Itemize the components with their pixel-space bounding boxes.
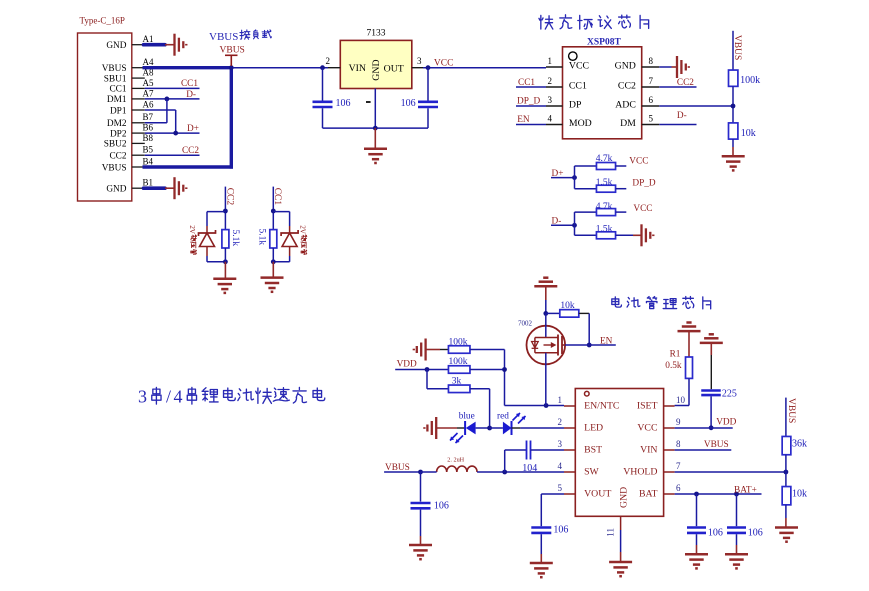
svg-text:VBUS: VBUS (102, 64, 127, 74)
svg-text:2V: 2V (298, 225, 306, 235)
svg-text:CC1: CC1 (109, 85, 126, 95)
svg-text:red: red (497, 411, 509, 421)
svg-text:4.7k: 4.7k (596, 202, 613, 212)
svg-text:4.7k: 4.7k (596, 154, 613, 164)
svg-text:LED: LED (584, 423, 603, 434)
svg-text:ADC: ADC (615, 100, 636, 111)
svg-text:5: 5 (558, 483, 563, 493)
svg-text:9: 9 (676, 417, 681, 427)
svg-text:B8: B8 (143, 133, 154, 143)
svg-text:B5: B5 (143, 145, 154, 155)
svg-text:DP1: DP1 (110, 106, 127, 116)
svg-text:6: 6 (649, 95, 654, 105)
svg-text:SBU1: SBU1 (104, 74, 127, 84)
svg-text:100k: 100k (449, 357, 468, 367)
svg-text:D-: D- (677, 111, 687, 121)
svg-text:CC2: CC2 (618, 81, 636, 92)
svg-text:106: 106 (336, 98, 351, 109)
svg-text:VCC: VCC (434, 59, 454, 69)
svg-text:OUT: OUT (384, 64, 404, 75)
svg-text:7133: 7133 (367, 29, 386, 39)
svg-text:B1: B1 (143, 178, 154, 188)
svg-text:1.5k: 1.5k (596, 224, 613, 234)
svg-text:VBUS: VBUS (102, 163, 127, 173)
svg-text:3k: 3k (452, 377, 462, 387)
svg-text:EN: EN (600, 337, 613, 347)
svg-text:VCC: VCC (633, 204, 652, 214)
svg-text:A5: A5 (143, 78, 154, 88)
svg-text:A7: A7 (143, 88, 154, 98)
svg-text:7002: 7002 (518, 319, 533, 327)
svg-text:VCC: VCC (637, 423, 657, 434)
svg-text:4: 4 (174, 386, 183, 406)
svg-text:1.5k: 1.5k (596, 178, 613, 188)
svg-text:A1: A1 (143, 34, 154, 44)
svg-text:DM1: DM1 (107, 95, 127, 105)
svg-text:SBU2: SBU2 (104, 140, 127, 150)
svg-text:2: 2 (548, 76, 553, 86)
svg-text:GND: GND (106, 185, 126, 195)
svg-text:CC1: CC1 (518, 78, 535, 88)
svg-text:10: 10 (676, 395, 686, 405)
svg-text:blue: blue (459, 411, 475, 421)
svg-text:VBUS: VBUS (786, 398, 796, 423)
svg-text:VIN: VIN (640, 445, 657, 456)
svg-text:GND: GND (371, 59, 382, 80)
svg-text:2: 2 (326, 56, 331, 66)
svg-text:R1: R1 (670, 349, 681, 359)
svg-text:VIN: VIN (349, 63, 366, 74)
svg-text:3: 3 (417, 56, 422, 66)
svg-text:DP_D: DP_D (632, 179, 656, 189)
svg-text:/: / (166, 386, 171, 406)
svg-text:100k: 100k (740, 75, 760, 86)
svg-text:VCC: VCC (629, 156, 648, 166)
svg-text:CC2: CC2 (109, 152, 126, 162)
svg-text:4: 4 (548, 113, 553, 123)
svg-text:CC1: CC1 (569, 81, 587, 92)
svg-text:106: 106 (748, 528, 763, 539)
svg-text:106: 106 (434, 501, 449, 512)
svg-text:VDD: VDD (397, 359, 417, 369)
svg-text:DP: DP (569, 100, 582, 111)
svg-text:106: 106 (708, 528, 723, 539)
svg-text:GND: GND (106, 41, 126, 51)
svg-text:1: 1 (558, 395, 563, 405)
svg-text:B6: B6 (143, 123, 154, 133)
svg-text:DP2: DP2 (110, 129, 127, 139)
svg-text:D+: D+ (187, 124, 199, 134)
svg-text:SW: SW (584, 467, 599, 478)
svg-text:ISET: ISET (637, 401, 658, 412)
svg-text:5.1k: 5.1k (230, 230, 240, 247)
svg-text:1: 1 (548, 56, 553, 66)
svg-text:VBUS: VBUS (220, 46, 245, 56)
svg-text:7: 7 (649, 76, 654, 86)
svg-text:BST: BST (584, 445, 602, 456)
svg-text:5.1k: 5.1k (256, 229, 266, 246)
svg-text:6: 6 (676, 483, 681, 493)
svg-text:D-: D- (186, 90, 196, 100)
svg-text:DM2: DM2 (107, 119, 127, 129)
svg-text:Type-C_16P: Type-C_16P (80, 16, 125, 26)
svg-text:3: 3 (138, 386, 147, 406)
svg-text:VCC: VCC (569, 61, 589, 72)
svg-text:VDD: VDD (716, 418, 736, 428)
svg-text:2V: 2V (188, 225, 196, 235)
svg-text:3: 3 (548, 95, 553, 105)
svg-text:10k: 10k (792, 489, 807, 500)
svg-text:DP_D: DP_D (517, 97, 541, 107)
svg-text:GND: GND (615, 61, 636, 72)
svg-text:MOD: MOD (569, 118, 592, 129)
svg-text:VOUT: VOUT (584, 489, 611, 500)
svg-text:A6: A6 (143, 99, 154, 109)
svg-text:VBUS: VBUS (704, 440, 729, 450)
svg-text:B7: B7 (143, 112, 154, 122)
svg-text:2: 2 (558, 417, 563, 427)
svg-text:36k: 36k (792, 438, 807, 449)
svg-text:225: 225 (722, 388, 737, 399)
svg-text:8: 8 (676, 439, 681, 449)
svg-text:11: 11 (606, 528, 616, 537)
svg-text:2. 2uH: 2. 2uH (447, 456, 464, 463)
svg-text:CC1: CC1 (181, 79, 198, 89)
svg-text:B4: B4 (143, 156, 154, 166)
svg-text:4: 4 (558, 461, 563, 471)
svg-text:106: 106 (401, 98, 416, 109)
svg-text:DM: DM (620, 118, 636, 129)
svg-text:100k: 100k (449, 337, 468, 347)
svg-text:VHOLD: VHOLD (623, 467, 657, 478)
svg-text:BAT+: BAT+ (734, 486, 757, 496)
svg-text:3: 3 (558, 439, 563, 449)
svg-text:CC2: CC2 (182, 146, 199, 156)
svg-text:EN/NTC: EN/NTC (584, 401, 619, 412)
svg-text:A4: A4 (143, 57, 154, 67)
svg-text:104: 104 (522, 463, 537, 474)
svg-text:EN: EN (517, 115, 530, 125)
svg-text:0.5k: 0.5k (665, 361, 682, 371)
svg-text:5: 5 (649, 113, 654, 123)
svg-text:7: 7 (676, 461, 681, 471)
svg-text:VBUS: VBUS (209, 31, 238, 43)
svg-text:10k: 10k (741, 128, 756, 139)
svg-text:GND: GND (619, 487, 630, 508)
svg-text:8: 8 (649, 56, 654, 66)
svg-text:10k: 10k (560, 301, 575, 311)
svg-text:BAT: BAT (639, 489, 658, 500)
svg-text:106: 106 (553, 524, 568, 535)
